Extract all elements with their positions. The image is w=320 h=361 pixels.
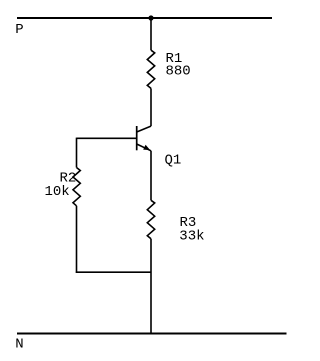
wire bottom horizontal to emitter net [76, 271, 151, 273]
wire emitter to R3 [150, 151, 152, 201]
wire R1 to collector [150, 88, 152, 126]
svg-text:33k: 33k [179, 228, 204, 244]
svg-text:10k: 10k [45, 184, 70, 200]
junction dot on rail P [148, 15, 153, 20]
transistor Q1 [137, 126, 151, 151]
wire rail to R1 [150, 18, 152, 50]
wire R2 to bottom corner [76, 206, 78, 273]
power rail N [17, 333, 287, 335]
wire base corner to R2 [76, 138, 78, 168]
svg-text:880: 880 [166, 64, 191, 80]
power rail P [17, 17, 272, 19]
resistor R1 [147, 50, 154, 88]
svg-text:Q1: Q1 [165, 153, 182, 169]
svg-text:N: N [15, 337, 23, 353]
wire R3 to rail N [150, 239, 152, 334]
resistor R3 [147, 200, 154, 239]
resistor R2 [73, 168, 80, 206]
svg-text:P: P [15, 22, 23, 38]
base wire [77, 137, 137, 139]
